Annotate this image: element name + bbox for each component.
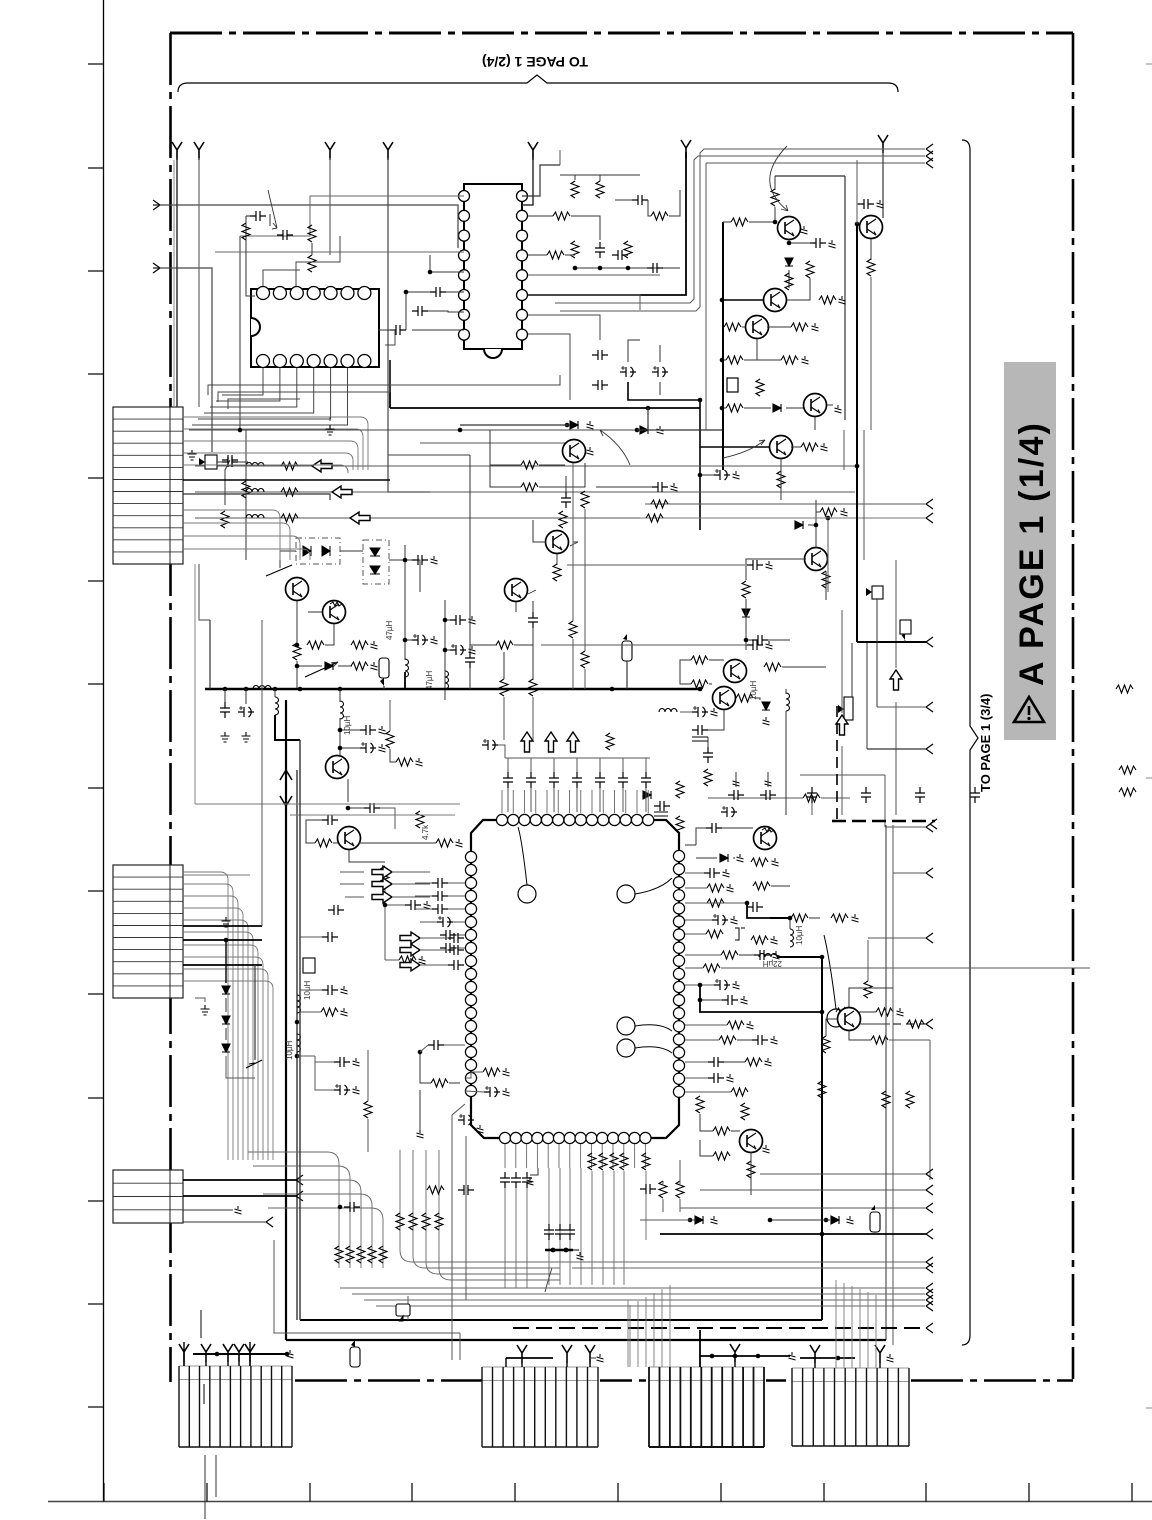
wire [685, 887, 707, 889]
wire [696, 828, 706, 845]
terminal thick [926, 1229, 933, 1239]
terminal in [153, 263, 160, 273]
wire long 2 [541, 644, 747, 646]
wire [419, 1090, 421, 1130]
wire U1 top pin 10 [614, 790, 616, 813]
ground [771, 1036, 778, 1044]
page edge tick bottom [823, 1483, 825, 1502]
U1 pin right 17 [673, 1060, 684, 1071]
wire CN2 pin 8 [183, 969, 268, 1160]
wire [825, 571, 827, 600]
wire CN7 riser [859, 1289, 861, 1368]
U3 pin top 5 [324, 287, 337, 300]
wire [573, 440, 575, 443]
wire thick bottom 2 [286, 1339, 886, 1341]
wire [895, 560, 897, 668]
antenna [194, 142, 204, 160]
ground [671, 483, 678, 491]
junction [826, 516, 831, 521]
ground [812, 323, 819, 331]
wire U1 top pin 13 [647, 790, 649, 813]
wire dashed bus [832, 820, 935, 822]
fuse F4 [870, 1212, 880, 1232]
wire [389, 700, 391, 731]
wire [217, 461, 222, 463]
U1 pin bottom 5 [543, 1132, 554, 1143]
ground [766, 561, 773, 569]
wire [622, 758, 624, 772]
page edge tick left [88, 683, 104, 685]
terminal out [926, 1301, 933, 1311]
junction [443, 618, 448, 623]
terminal [266, 1217, 273, 1227]
resistor [691, 680, 708, 688]
resistor [571, 181, 579, 198]
frame border bottom seg2 [600, 1379, 649, 1382]
wire [566, 1363, 568, 1367]
wire U3 pin 2 [210, 368, 297, 407]
ground [424, 901, 431, 909]
wire [827, 404, 833, 406]
U1 pin left 2 [465, 864, 476, 875]
U2 pin 6 [459, 290, 470, 301]
wire [867, 940, 869, 981]
wire [515, 1188, 517, 1288]
U1 pin top 6 [553, 814, 564, 825]
capacitor [432, 891, 448, 901]
resistor [553, 564, 561, 581]
curve callout3 [600, 430, 630, 465]
wire [789, 918, 791, 929]
wire U3 pin 0 [222, 368, 263, 395]
node callout arrow e [824, 935, 836, 1009]
wire [444, 1044, 465, 1046]
wire [626, 661, 628, 689]
wire [750, 1152, 752, 1195]
ground [821, 443, 828, 451]
signal arrow right [400, 932, 420, 944]
wire [297, 1055, 315, 1057]
resistor [736, 694, 753, 702]
wire [340, 883, 364, 885]
page edge tick bottom [309, 1483, 311, 1502]
CN4 stub2 [204, 1455, 206, 1519]
wire [325, 624, 334, 645]
wire CN2 thick1 [183, 925, 262, 927]
U3 pin bottom 4 [307, 355, 320, 368]
wire [724, 1061, 745, 1063]
wire down to CN5 [451, 1160, 453, 1360]
node callout arrow a [518, 827, 527, 885]
wire [590, 1357, 596, 1359]
page edge tick bottom [925, 1483, 927, 1502]
capacitor bypass [618, 772, 628, 788]
wire [311, 243, 313, 255]
resistor [801, 443, 818, 451]
resistor [867, 259, 875, 276]
wire mid run 2 [420, 442, 574, 444]
frame border left [169, 33, 172, 1382]
wire U1 top pin 12 [636, 790, 638, 813]
wire [659, 382, 661, 395]
capacitor [322, 985, 338, 995]
wire [700, 474, 714, 476]
U1 pin right 7 [673, 929, 684, 940]
bus chevron up [280, 770, 292, 780]
wire gray vertical [194, 564, 196, 804]
ground [587, 447, 594, 455]
cap ceramic stack [735, 928, 745, 940]
wire CN6 riser [629, 1305, 631, 1367]
wire bus corner [389, 360, 391, 408]
capacitor [712, 914, 728, 925]
wire [456, 934, 465, 936]
wire [735, 772, 737, 787]
wire [866, 643, 868, 749]
page edge tick bottom [1131, 1483, 1133, 1502]
wire [685, 954, 721, 956]
resistor [651, 212, 668, 220]
wire CN6 riser [645, 1297, 647, 1367]
wire [645, 788, 647, 812]
frame border right [1072, 33, 1075, 1379]
wire [699, 447, 701, 530]
wire [589, 1363, 591, 1367]
wire [526, 1188, 528, 1288]
wire [348, 807, 364, 809]
wire [596, 486, 652, 488]
wire U1 top pin 9 [602, 790, 604, 813]
antenna CN7b [875, 1345, 885, 1363]
svg-text:TO PAGE 1 (3/4): TO PAGE 1 (3/4) [978, 694, 993, 793]
capacitor [428, 1040, 444, 1050]
capacitor [412, 634, 428, 645]
wire [459, 1333, 461, 1360]
U1 pin bottom 9 [586, 1132, 597, 1143]
wire antenna 7 drop [882, 147, 884, 218]
wire CN2 thick2 [183, 939, 262, 941]
page edge tick left [88, 477, 104, 479]
resistor [731, 218, 748, 226]
wire [745, 599, 747, 650]
wire [647, 408, 649, 430]
antenna [528, 142, 538, 160]
signal arrow right [372, 891, 392, 903]
wire to U2 pin5 [428, 311, 464, 312]
wire CN7 riser [867, 1292, 869, 1368]
wire antenna 2 drop [198, 158, 200, 407]
junction [626, 266, 631, 271]
wire CN2 pin 2 [183, 896, 238, 1160]
page edge tick left [88, 373, 104, 375]
antenna bottom [234, 1344, 244, 1362]
wire [565, 254, 575, 256]
resistor [724, 323, 741, 331]
svg-text:10µH: 10µH [795, 925, 804, 945]
capacitor [752, 1035, 768, 1045]
capacitor [703, 747, 713, 763]
capacitor [810, 238, 826, 248]
pcap rot [245, 711, 247, 713]
wire [300, 989, 322, 991]
svg-text:10µH: 10µH [343, 715, 352, 735]
junction [443, 648, 448, 653]
wire [708, 710, 724, 730]
junction [224, 938, 229, 943]
wire [195, 998, 205, 1002]
wire [841, 746, 843, 815]
wire [700, 1140, 713, 1156]
U1 pin right 10 [673, 968, 684, 979]
capacitor [364, 803, 380, 813]
resistor [308, 225, 316, 242]
wire block right rail [844, 176, 846, 420]
resistor [836, 1008, 853, 1016]
wire U2 pin1 [240, 196, 464, 236]
wire [530, 758, 532, 772]
U2 pin 15 [517, 210, 528, 221]
capacitor [706, 823, 722, 833]
resistor [599, 1153, 607, 1170]
res in circle [330, 602, 342, 606]
wire CN1 pin 3 [183, 453, 353, 470]
junction [338, 746, 343, 751]
junction [598, 266, 603, 271]
resistor [756, 379, 764, 396]
capacitor [692, 725, 708, 735]
resistor [751, 858, 768, 866]
wire U3 pin 1 [216, 368, 280, 401]
wire [226, 1056, 255, 1078]
capacitor [647, 263, 663, 273]
U1 pin top 3 [519, 814, 530, 825]
node callout arrow c [635, 1025, 672, 1031]
resistor [281, 462, 298, 470]
wire CN1 low pin 2 [183, 536, 300, 560]
capacitor bypass [526, 772, 536, 788]
wire [333, 842, 338, 844]
wire [569, 1168, 571, 1285]
page edge tick left [88, 1303, 104, 1305]
ground [737, 854, 744, 862]
signal arrow up 3 [890, 670, 902, 690]
wire [227, 1362, 229, 1366]
resistor [293, 643, 301, 660]
wire [591, 1171, 593, 1285]
page edge tick bottom [411, 1483, 413, 1502]
U1 pin left 16 [465, 1046, 476, 1057]
wire [576, 788, 578, 812]
wire [521, 1363, 523, 1367]
wire [420, 1045, 428, 1052]
wire [680, 660, 691, 684]
transistor Q6 [770, 436, 793, 459]
wire U1 bottom pin 11 [623, 1144, 625, 1168]
wire [420, 921, 437, 923]
wire bus vertical 2 [296, 770, 298, 1320]
wire [498, 745, 505, 758]
ground [733, 981, 740, 989]
U1 pin left 3 [465, 877, 476, 888]
U3 pin bottom 1 [257, 355, 270, 368]
wire to U2 pin6 [412, 329, 464, 331]
capacitor [754, 950, 770, 960]
comp box small4 [844, 697, 853, 720]
wire CN3 3 [183, 1209, 233, 1211]
capacitor [528, 612, 538, 628]
signal arrow up 2 [836, 715, 848, 735]
wire [787, 278, 810, 300]
wire U1 bottom pin 6 [569, 1144, 571, 1168]
ground [733, 471, 740, 479]
diode lever [246, 1060, 262, 1068]
wire [300, 936, 322, 938]
wire CN2 pin 1 [183, 884, 233, 1160]
wire [857, 203, 858, 205]
antenna CN7 [810, 1345, 820, 1363]
wire [771, 885, 790, 887]
U1 pin right 2 [673, 864, 684, 875]
wire thick CN6 [700, 1355, 790, 1357]
wire [390, 749, 396, 762]
U1 pin top 10 [598, 814, 609, 825]
resistor [435, 1213, 443, 1230]
wire [446, 291, 464, 293]
wire [385, 904, 405, 906]
U1 pin right 6 [673, 916, 684, 927]
wire run [560, 1261, 926, 1263]
inductor 10uH [297, 995, 301, 1013]
wire bundle 2 [413, 1150, 560, 1268]
wire vertical [299, 740, 301, 1320]
resistor [569, 621, 577, 638]
svg-text:10µH: 10µH [285, 1040, 294, 1060]
resistor on bus [1116, 685, 1133, 693]
capacitor [522, 1172, 532, 1188]
connector CN5 (bottom 2) [482, 1366, 598, 1368]
U1 pin bottom 2 [510, 1132, 521, 1143]
U1 pin top 13 [631, 814, 642, 825]
wire gray elbow [274, 1240, 460, 1333]
wire [863, 430, 865, 560]
transistor Q13 [338, 827, 361, 850]
wire run [572, 1267, 926, 1269]
wire [744, 359, 781, 361]
capacitor [448, 960, 464, 970]
fuse arrow [380, 678, 384, 686]
wire CN6 riser [661, 1289, 663, 1367]
wire [532, 601, 534, 612]
wire [556, 554, 558, 565]
wire [811, 803, 813, 815]
signal arrow up [545, 732, 557, 752]
wire to terminal [867, 748, 926, 750]
wire thick vertical right [856, 224, 858, 642]
terminal out [926, 144, 933, 154]
capacitor bypass [572, 772, 582, 788]
wire block top [775, 175, 845, 177]
page edge tick bottom [514, 1483, 516, 1502]
antenna bottom CN5 [562, 1345, 572, 1363]
page edge tick left [88, 1200, 104, 1202]
capacitor [390, 325, 406, 335]
q18 arrow [570, 542, 578, 546]
wire CN2 pin 6 [183, 945, 258, 1160]
wire [205, 1362, 207, 1366]
U1 pin right 9 [673, 955, 684, 966]
U2 pin 8 [459, 329, 470, 340]
transistor Q8 [724, 660, 747, 683]
wire cap rail [505, 757, 650, 759]
wire [615, 199, 632, 201]
wire U1 bottom pin 12 [634, 1144, 636, 1168]
wire U1 bottom pin 7 [580, 1144, 582, 1168]
antenna [878, 135, 888, 153]
wire [453, 921, 465, 923]
resistor [864, 981, 872, 998]
diode [695, 1216, 703, 1224]
transistor Q4 [746, 316, 769, 339]
wire U1 top pin 7 [580, 790, 582, 813]
ground [341, 986, 348, 994]
wire U3 pin 3 [204, 368, 314, 413]
U1 pin left 1 [465, 851, 476, 862]
microcontroller U1 body [471, 820, 679, 1138]
wire thick [700, 985, 822, 1012]
ground [887, 1354, 894, 1362]
wire U1 bottom pin 9 [601, 1144, 603, 1168]
inductor 22uH [759, 954, 777, 958]
warning triangle [1014, 697, 1044, 722]
antenna bottom [245, 1344, 255, 1362]
capacitor [322, 932, 338, 942]
wire stub [200, 1310, 202, 1338]
wire [448, 908, 465, 910]
wire [548, 1168, 550, 1285]
relay box [727, 378, 738, 392]
wire [405, 559, 412, 561]
wire [679, 1199, 681, 1212]
capacitor [250, 211, 266, 221]
wire arrow line [195, 465, 855, 467]
U1 pin left 7 [465, 929, 476, 940]
wire [816, 511, 820, 513]
ground [763, 717, 770, 725]
resistor [747, 1161, 755, 1178]
inductor on bus [253, 686, 271, 690]
ground [417, 1130, 424, 1138]
ground [841, 508, 848, 516]
U3 pin top 6 [341, 287, 354, 300]
terminal out [926, 933, 933, 943]
U1 pin top 1 [496, 814, 507, 825]
U1 pin bottom 4 [532, 1132, 543, 1143]
wire U1 bottom pin 4 [547, 1144, 549, 1168]
junction [238, 428, 243, 433]
junction [383, 903, 388, 908]
wire to terminal [868, 937, 926, 939]
junction [346, 806, 351, 811]
wire opto link [340, 550, 363, 552]
wire [849, 988, 893, 1007]
U1 pin bottom 14 [640, 1132, 651, 1143]
U1 pin left 15 [465, 1033, 476, 1044]
wire thick above CN4 [193, 1353, 287, 1355]
U1 pin left 10 [465, 968, 476, 979]
U1 pin top 9 [586, 814, 597, 825]
U1 pin bottom 1 [499, 1132, 510, 1143]
U1 pin left 6 [465, 916, 476, 927]
